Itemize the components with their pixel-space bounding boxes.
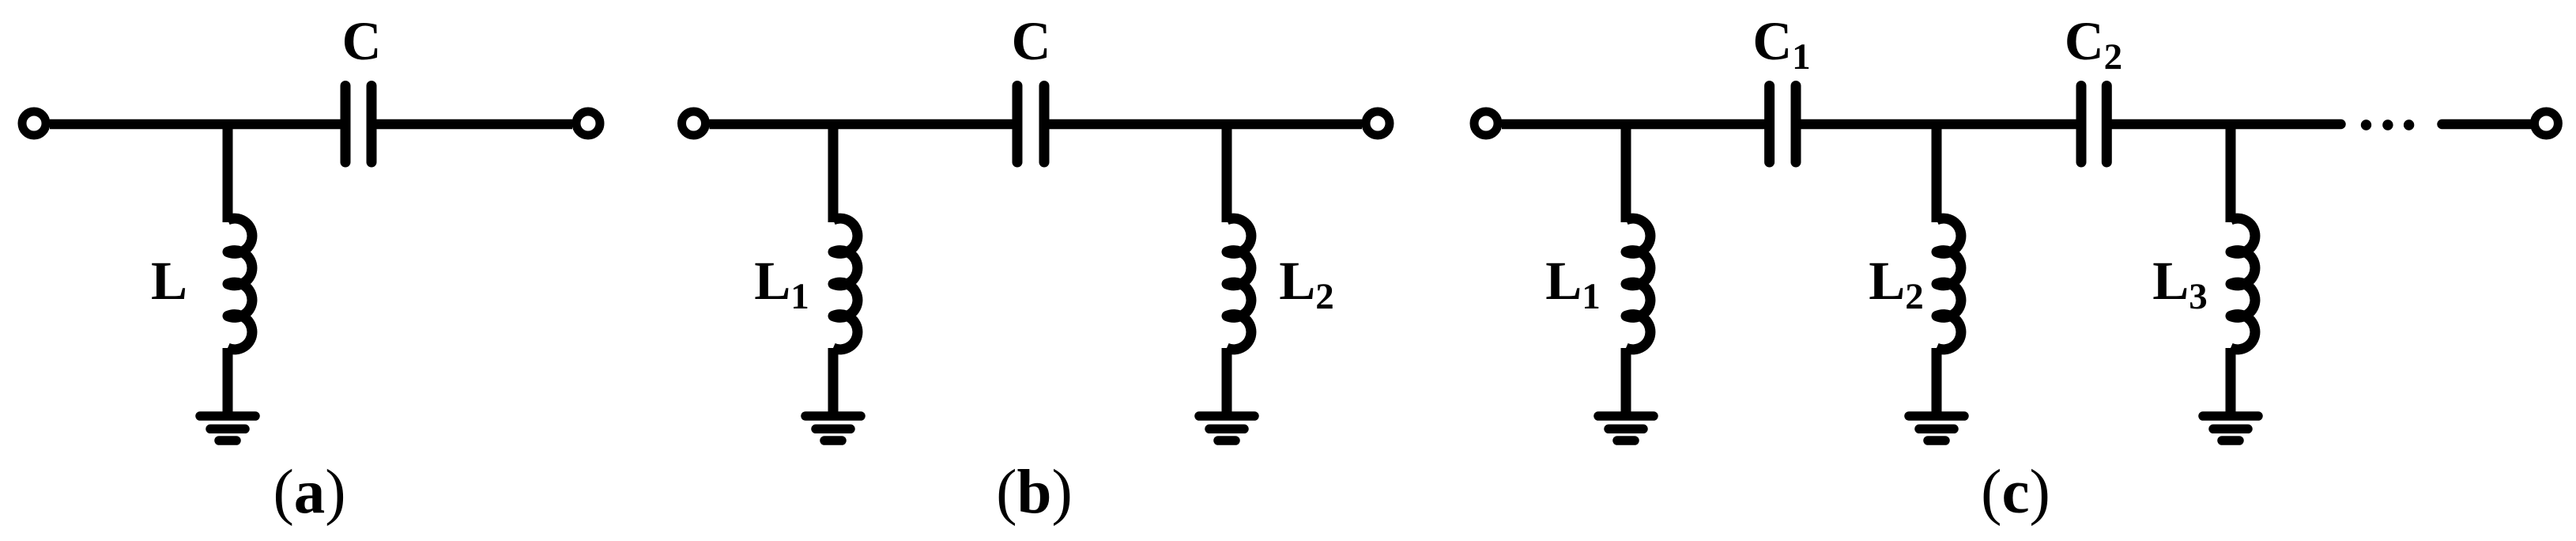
terminal port P3 (left, circuit b) bbox=[682, 112, 706, 135]
wire inductor L2 to ground bbox=[1222, 348, 1232, 416]
svg-text:(a): (a) bbox=[273, 458, 345, 527]
terminal port P6 (right, circuit c) bbox=[2534, 112, 2558, 135]
node B1 / wire down to inductor L1 bbox=[828, 124, 839, 222]
wire P3 to capacitor C (via node B1) bbox=[710, 119, 1018, 130]
ground (circuit b, left) bbox=[805, 416, 861, 441]
node C1n / wire down to inductor L1 bbox=[1621, 124, 1631, 222]
svg-text:L: L bbox=[151, 251, 187, 311]
terminal port P1 (left, circuit a) bbox=[22, 112, 46, 135]
svg-text:(c): (c) bbox=[1981, 458, 2050, 527]
capacitor C1 bbox=[1770, 86, 1796, 163]
node B2 / wire down to inductor L2 bbox=[1222, 124, 1232, 222]
ground (circuit c, under L1) bbox=[1598, 416, 1654, 441]
terminal port P2 (right, circuit a) bbox=[576, 112, 600, 135]
capacitor C2 bbox=[2081, 86, 2106, 163]
capacitor C (circuit a) bbox=[345, 86, 372, 163]
svg-text:(b): (b) bbox=[996, 458, 1073, 527]
wire capacitor C to P4 (via node B2) bbox=[1044, 119, 1362, 130]
inductor L1 (circuit b) bbox=[833, 218, 858, 350]
inductor L3 (circuit c) bbox=[2231, 218, 2255, 350]
wire P5 to capacitor C1 (via node C1n) bbox=[1502, 119, 1770, 130]
ground (circuit a) bbox=[200, 416, 255, 441]
ellipsis dots bbox=[2361, 119, 2415, 130]
wire capacitor C2 past node C3n to ellipsis bbox=[2106, 119, 2340, 130]
inductor L2 (circuit c) bbox=[1937, 218, 1961, 350]
node C3n / wire down to inductor L3 bbox=[2226, 124, 2236, 222]
ground (circuit c, under L3) bbox=[2203, 416, 2258, 441]
wire inductor L1 to ground bbox=[1621, 348, 1631, 416]
wire inductor L3 to ground bbox=[2226, 348, 2236, 416]
terminal port P4 (right, circuit b) bbox=[1366, 112, 1390, 135]
terminal port P5 (left, circuit c) bbox=[1474, 112, 1498, 135]
inductor L1 (circuit c) bbox=[1626, 218, 1650, 350]
capacitor C (circuit b) bbox=[1017, 86, 1044, 163]
wire P1 to node A bbox=[50, 119, 345, 130]
ground (circuit b, right) bbox=[1199, 416, 1254, 441]
node A / wire down to inductor L bbox=[223, 124, 233, 222]
ground (circuit c, under L2) bbox=[1909, 416, 1964, 441]
wire inductor L to ground bbox=[223, 348, 233, 416]
wire ellipsis to terminal port P6 bbox=[2442, 119, 2531, 130]
node C2n / wire down to inductor L2 bbox=[1932, 124, 1942, 222]
inductor L2 (circuit b) bbox=[1227, 218, 1251, 350]
wire capacitor C to P2 bbox=[372, 119, 572, 130]
svg-text:C: C bbox=[1012, 11, 1051, 71]
wire capacitor C1 to capacitor C2 (via node C2n) bbox=[1796, 119, 2081, 130]
wire inductor L1 to ground bbox=[828, 348, 839, 416]
inductor L bbox=[228, 218, 252, 350]
svg-text:C: C bbox=[342, 11, 382, 71]
wire inductor L2 to ground bbox=[1932, 348, 1942, 416]
